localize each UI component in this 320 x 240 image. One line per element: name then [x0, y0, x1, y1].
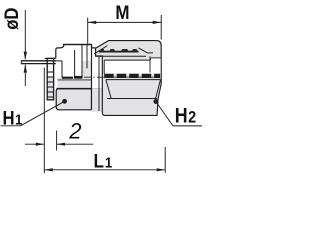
dimension L1 line	[44, 169, 165, 171]
centerline	[84, 76, 158, 78]
label øD	[1, 7, 22, 29]
H2 leader	[156, 102, 173, 126]
nut cavity left wall	[103, 60, 105, 74]
section edge d	[86, 45, 88, 69]
nut flat top boundary	[106, 79, 161, 81]
dimension M right extension	[160, 15, 162, 40]
nut bore cavity	[104, 58, 160, 74]
dimension øD upper line	[24, 10, 26, 59]
thread root bar b	[74, 76, 82, 79]
nut counterbore step	[149, 58, 151, 60]
tube stem bottom wall	[21, 63, 56, 65]
tube stem end cap	[20, 60, 22, 64]
serration tooth 4	[132, 49, 139, 52]
label L1	[94, 149, 113, 171]
H1 underline	[1, 125, 21, 127]
union nut body	[96, 41, 162, 116]
knurled collar outline	[47, 58, 53, 99]
knurled collar shading (lower half)	[47, 77, 53, 100]
tube stem top wall	[21, 60, 56, 62]
nut counterbore wall	[150, 57, 160, 59]
H1 leader	[21, 101, 65, 126]
serration tooth 1	[100, 49, 105, 52]
dimension 2 right tail	[57, 143, 94, 145]
nut chamfer diagonal right	[139, 48, 154, 53]
hex body upper band	[58, 78, 92, 89]
hex body top edge line	[57, 88, 103, 90]
nut cavity top wall	[104, 59, 150, 61]
dimension L1 left arrow	[44, 168, 53, 171]
neck section white	[92, 49, 103, 89]
body top profile	[56, 45, 96, 59]
dimension øD lower line	[24, 65, 26, 86]
label H1	[3, 108, 23, 129]
body top edge	[63, 44, 92, 46]
svg-text:L1: L1	[94, 149, 113, 171]
dimension L1 right extension	[164, 147, 166, 173]
body section inner gray cell	[82, 61, 92, 78]
tube stem bore	[21, 61, 55, 63]
serration tooth 3	[121, 49, 129, 52]
dimension M line	[88, 21, 162, 23]
knurl line 6	[47, 96, 53, 98]
svg-text:øD: øD	[1, 7, 22, 29]
collar top edge	[45, 57, 56, 59]
section edge c	[81, 45, 83, 78]
knurl line 2	[47, 76, 53, 78]
body section interior	[55, 45, 91, 79]
knurl line 1	[47, 71, 53, 73]
nut chamfer diagonal left	[94, 46, 107, 54]
nut flat left chamfer	[106, 80, 111, 99]
nut chamfer edge vertical	[149, 56, 151, 72]
nut flat right chamfer	[156, 80, 161, 99]
label M	[115, 1, 129, 23]
body right face	[91, 45, 93, 110]
dimension 2 right extension	[56, 131, 58, 151]
knurl line 3	[47, 81, 53, 83]
svg-text:H2: H2	[175, 104, 197, 128]
serration tooth 2	[109, 49, 115, 52]
svg-text:M: M	[115, 1, 129, 23]
dimension L1 right arrow	[157, 168, 166, 171]
dimension øD upper arrow	[24, 52, 27, 60]
H2 leader dot	[153, 99, 158, 104]
nut flat bottom boundary	[107, 98, 157, 100]
label H2	[175, 104, 197, 128]
dimension 2 left extension	[43, 68, 45, 174]
bore top line	[55, 60, 62, 62]
dimension 2 left tail	[25, 143, 44, 145]
section edge a	[61, 61, 63, 78]
hex body corner chamfer	[93, 103, 98, 109]
neck lower gray	[92, 88, 103, 112]
nut internal thread row	[104, 74, 160, 78]
nut inner left wall	[98, 57, 100, 112]
knurl line 4	[47, 86, 53, 88]
hex body H1	[56, 89, 91, 110]
nut serration band line	[99, 51, 139, 53]
nut upper flat boundary	[96, 55, 146, 57]
thread root bar a	[62, 77, 73, 79]
dimension M right arrow	[153, 21, 162, 24]
section edge b	[74, 50, 76, 78]
H2 underline	[173, 125, 202, 127]
dimension 2 left arrow	[36, 143, 45, 146]
hex band boundary	[58, 79, 92, 81]
dimension M left arrow	[88, 21, 97, 24]
dimension øD lower arrow	[24, 64, 27, 72]
svg-text:2: 2	[68, 119, 81, 144]
dimension 2 right arrow	[57, 143, 66, 146]
knurl line 5	[47, 91, 53, 93]
dimension M left extension	[87, 18, 89, 44]
H1 leader dot	[62, 99, 67, 104]
